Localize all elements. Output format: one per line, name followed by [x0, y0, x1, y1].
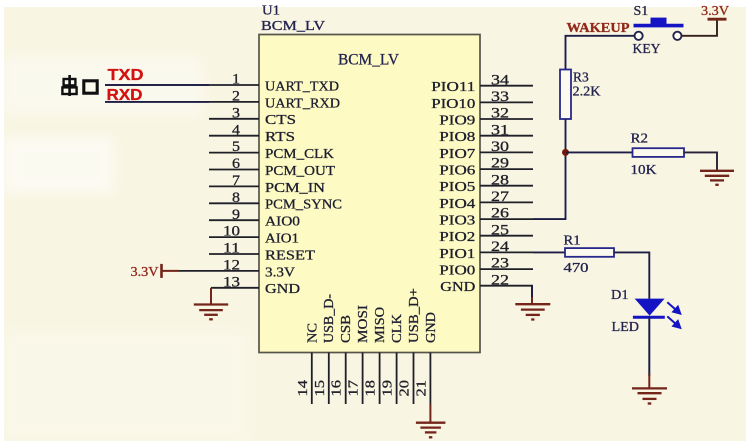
svg-text:AIO1: AIO1 [265, 231, 299, 246]
resistor R3 (vertical) [560, 70, 571, 120]
pin 23 (PIO0) [439, 256, 533, 278]
svg-text:USB_D-: USB_D- [321, 293, 336, 343]
ground symbol at pin 21 [416, 404, 446, 437]
svg-text:24: 24 [491, 239, 510, 255]
svg-text:UART_TXD: UART_TXD [265, 78, 339, 93]
IC U1 BCM_LV body [259, 35, 480, 353]
pin 31 (PIO8) [439, 122, 533, 144]
resistor R3 designator [573, 70, 589, 85]
svg-text:7: 7 [232, 173, 240, 189]
svg-text:U1: U1 [262, 4, 280, 19]
svg-text:26: 26 [491, 206, 509, 222]
resistor R1 value 470 [564, 260, 589, 275]
pin 11 (RESET) [209, 241, 316, 263]
svg-text:27: 27 [491, 189, 509, 205]
svg-text:PIO5: PIO5 [439, 179, 475, 194]
svg-text:28: 28 [491, 172, 509, 188]
pin 32 (PIO9) [439, 106, 533, 128]
IC U1 internal title BCM_LV [338, 52, 399, 69]
junction node R3/R2 [562, 149, 569, 156]
svg-text:PIO8: PIO8 [439, 129, 475, 144]
switch S1 reference designator [634, 4, 649, 19]
pin 30 (PIO7) [439, 139, 533, 161]
pin 27 (PIO4) [439, 189, 533, 211]
svg-text:32: 32 [491, 106, 509, 122]
svg-text:CSB: CSB [338, 315, 353, 343]
svg-text:31: 31 [491, 122, 509, 138]
wire R1 to LED anode [614, 252, 649, 298]
svg-text:3: 3 [232, 105, 240, 121]
svg-text:NC: NC [304, 323, 319, 343]
net label RXD [107, 87, 143, 104]
pin 13 (GND) [211, 274, 300, 296]
pin 7 (PCM_IN) [209, 173, 325, 195]
svg-text:R2: R2 [631, 131, 649, 146]
svg-text:6: 6 [232, 156, 240, 172]
svg-text:PCM_SYNC: PCM_SYNC [265, 197, 342, 212]
svg-text:WAKEUP: WAKEUP [567, 20, 630, 35]
pin 5 (PCM_CLK) [209, 139, 334, 161]
resistor R2 (horizontal) [633, 148, 685, 157]
svg-text:PIO4: PIO4 [439, 196, 475, 211]
svg-text:CTS: CTS [265, 112, 296, 127]
svg-text:AIO0: AIO0 [265, 214, 300, 229]
pin 15 (USB_D-) [313, 293, 336, 404]
svg-text:PIO0: PIO0 [439, 263, 475, 278]
svg-text:PIO7: PIO7 [439, 146, 475, 161]
resistor R1 designator [564, 233, 581, 248]
svg-text:10K: 10K [631, 162, 657, 177]
LED D1 designator [611, 288, 629, 303]
switch S1 (push button KEY) [634, 18, 684, 40]
pin 10 (AIO1) [209, 224, 299, 246]
pin 6 (PCM_OUT) [209, 156, 336, 178]
pin 14 (NC) [296, 323, 320, 404]
svg-text:3.3V: 3.3V [701, 3, 729, 18]
LED D1 light arrows [667, 302, 680, 328]
svg-text:3.3V: 3.3V [131, 264, 159, 279]
svg-text:29: 29 [491, 156, 509, 172]
power symbol 3.3V top right [701, 3, 729, 19]
switch S1 part label KEY [633, 42, 661, 57]
LED D1 part label LED [612, 320, 640, 335]
svg-text:10: 10 [223, 224, 240, 240]
pin 20 (USB_D+) [398, 288, 422, 404]
LED D1 [633, 299, 665, 318]
pin 3 (CTS) [209, 105, 296, 127]
pin 34 (PIO11) [431, 72, 533, 94]
svg-text:PCM_OUT: PCM_OUT [265, 163, 336, 178]
svg-text:PIO3: PIO3 [439, 213, 475, 228]
svg-text:20: 20 [398, 380, 413, 397]
IC U1 reference designator [262, 4, 280, 19]
pin 1 (UART_TXD) [105, 72, 339, 94]
pin 19 (CLK) [381, 314, 405, 404]
svg-text:GND: GND [265, 281, 300, 296]
svg-text:PIO10: PIO10 [431, 96, 475, 111]
svg-text:MISO: MISO [372, 307, 387, 343]
svg-text:15: 15 [313, 380, 328, 397]
svg-text:CLK: CLK [389, 314, 404, 343]
pin 33 (PIO10) [431, 89, 533, 111]
wire RXD to pin 2 [105, 101, 209, 103]
svg-text:PIO2: PIO2 [439, 229, 475, 244]
wire TXD to pin 1 [105, 84, 209, 86]
wire pin 26 PIO3 to vertical [533, 218, 566, 220]
pin 26 (PIO3) [439, 206, 533, 228]
svg-text:25: 25 [491, 222, 509, 238]
resistor R2 designator [631, 131, 649, 146]
svg-text:2: 2 [232, 89, 240, 105]
pin 29 (PIO6) [439, 156, 533, 178]
svg-text:33: 33 [491, 89, 509, 105]
svg-text:R1: R1 [564, 233, 581, 248]
net label 串口 (serial port), drawn glyphs [62, 75, 97, 96]
svg-text:12: 12 [223, 258, 240, 274]
pin 18 (MISO) [364, 307, 388, 404]
svg-text:23: 23 [491, 256, 509, 272]
svg-text:RESET: RESET [265, 247, 316, 262]
svg-text:3.3V: 3.3V [265, 264, 295, 279]
svg-text:11: 11 [223, 241, 240, 257]
svg-text:D1: D1 [611, 288, 629, 303]
resistor R3 value 2.2K [573, 84, 601, 99]
pin 4 (RTS) [209, 122, 295, 144]
svg-text:13: 13 [223, 274, 240, 290]
svg-text:GND: GND [423, 312, 438, 343]
ground symbol at pin 13 [194, 288, 228, 320]
pin 9 (AIO0) [209, 207, 300, 229]
svg-text:TXD: TXD [108, 67, 144, 84]
svg-text:LED: LED [612, 320, 640, 335]
svg-text:USB_D+: USB_D+ [406, 288, 421, 343]
pin 16 (CSB) [330, 315, 354, 404]
svg-text:BCM_LV: BCM_LV [338, 52, 399, 69]
wire junction to R2 [566, 151, 633, 153]
ground symbol at pin 22 [515, 286, 550, 320]
svg-text:1: 1 [232, 72, 240, 88]
svg-text:470: 470 [564, 260, 589, 275]
net label TXD [108, 67, 144, 84]
wire switch right contact to 3.3V [682, 19, 718, 35]
svg-text:MOSI: MOSI [355, 304, 370, 343]
svg-text:30: 30 [491, 139, 509, 155]
pin 12 (3.3V) [178, 258, 295, 280]
svg-text:22: 22 [491, 272, 509, 288]
svg-text:17: 17 [347, 380, 362, 397]
svg-text:2.2K: 2.2K [573, 84, 601, 99]
svg-text:18: 18 [364, 380, 379, 397]
svg-text:PIO6: PIO6 [439, 163, 475, 178]
svg-text:5: 5 [232, 139, 240, 155]
wire R3 bottom to PIO3 row [565, 119, 567, 219]
pin 28 (PIO5) [439, 172, 533, 194]
wire switch left contact to WAKEUP corner [566, 36, 635, 70]
svg-text:4: 4 [232, 122, 241, 138]
resistor R2 value 10K [631, 162, 657, 177]
svg-text:S1: S1 [634, 4, 649, 19]
ground symbol below LED [632, 374, 667, 404]
pin 17 (MOSI) [347, 304, 371, 404]
wire LED cathode to ground [648, 317, 650, 376]
wire R2 to ground [684, 152, 717, 170]
svg-text:19: 19 [381, 380, 396, 397]
pin 24 (PIO1) [439, 239, 533, 261]
svg-text:R3: R3 [573, 70, 589, 85]
svg-text:GND: GND [440, 279, 475, 294]
svg-text:PIO11: PIO11 [431, 79, 475, 94]
svg-text:RTS: RTS [265, 129, 295, 144]
net label WAKEUP [567, 20, 630, 35]
svg-text:14: 14 [296, 380, 311, 397]
svg-text:PIO9: PIO9 [439, 112, 475, 127]
svg-text:PIO1: PIO1 [439, 246, 475, 261]
svg-text:BCM_LV: BCM_LV [261, 19, 325, 34]
pin 2 (UART_RXD) [105, 89, 340, 111]
wire pin 24 PIO1 to R1 [533, 251, 565, 253]
svg-text:9: 9 [232, 207, 240, 223]
svg-text:KEY: KEY [633, 42, 661, 57]
svg-text:8: 8 [232, 190, 240, 206]
pin 22 (GND) [440, 272, 533, 294]
resistor R1 (horizontal) [565, 248, 614, 257]
svg-text:UART_RXD: UART_RXD [265, 95, 340, 110]
svg-text:34: 34 [491, 72, 510, 88]
pin 25 (PIO2) [439, 222, 533, 244]
IC U1 part name label BCM_LV [261, 19, 325, 34]
pin 21 (GND) [414, 312, 438, 404]
power symbol 3.3V at pin 12 [131, 264, 179, 279]
pin 8 (PCM_SYNC) [209, 190, 342, 212]
ground symbol right of R2 [700, 171, 734, 185]
svg-text:16: 16 [330, 380, 345, 397]
svg-text:21: 21 [414, 380, 429, 397]
svg-text:PCM_CLK: PCM_CLK [265, 146, 334, 161]
svg-text:PCM_IN: PCM_IN [265, 180, 325, 195]
